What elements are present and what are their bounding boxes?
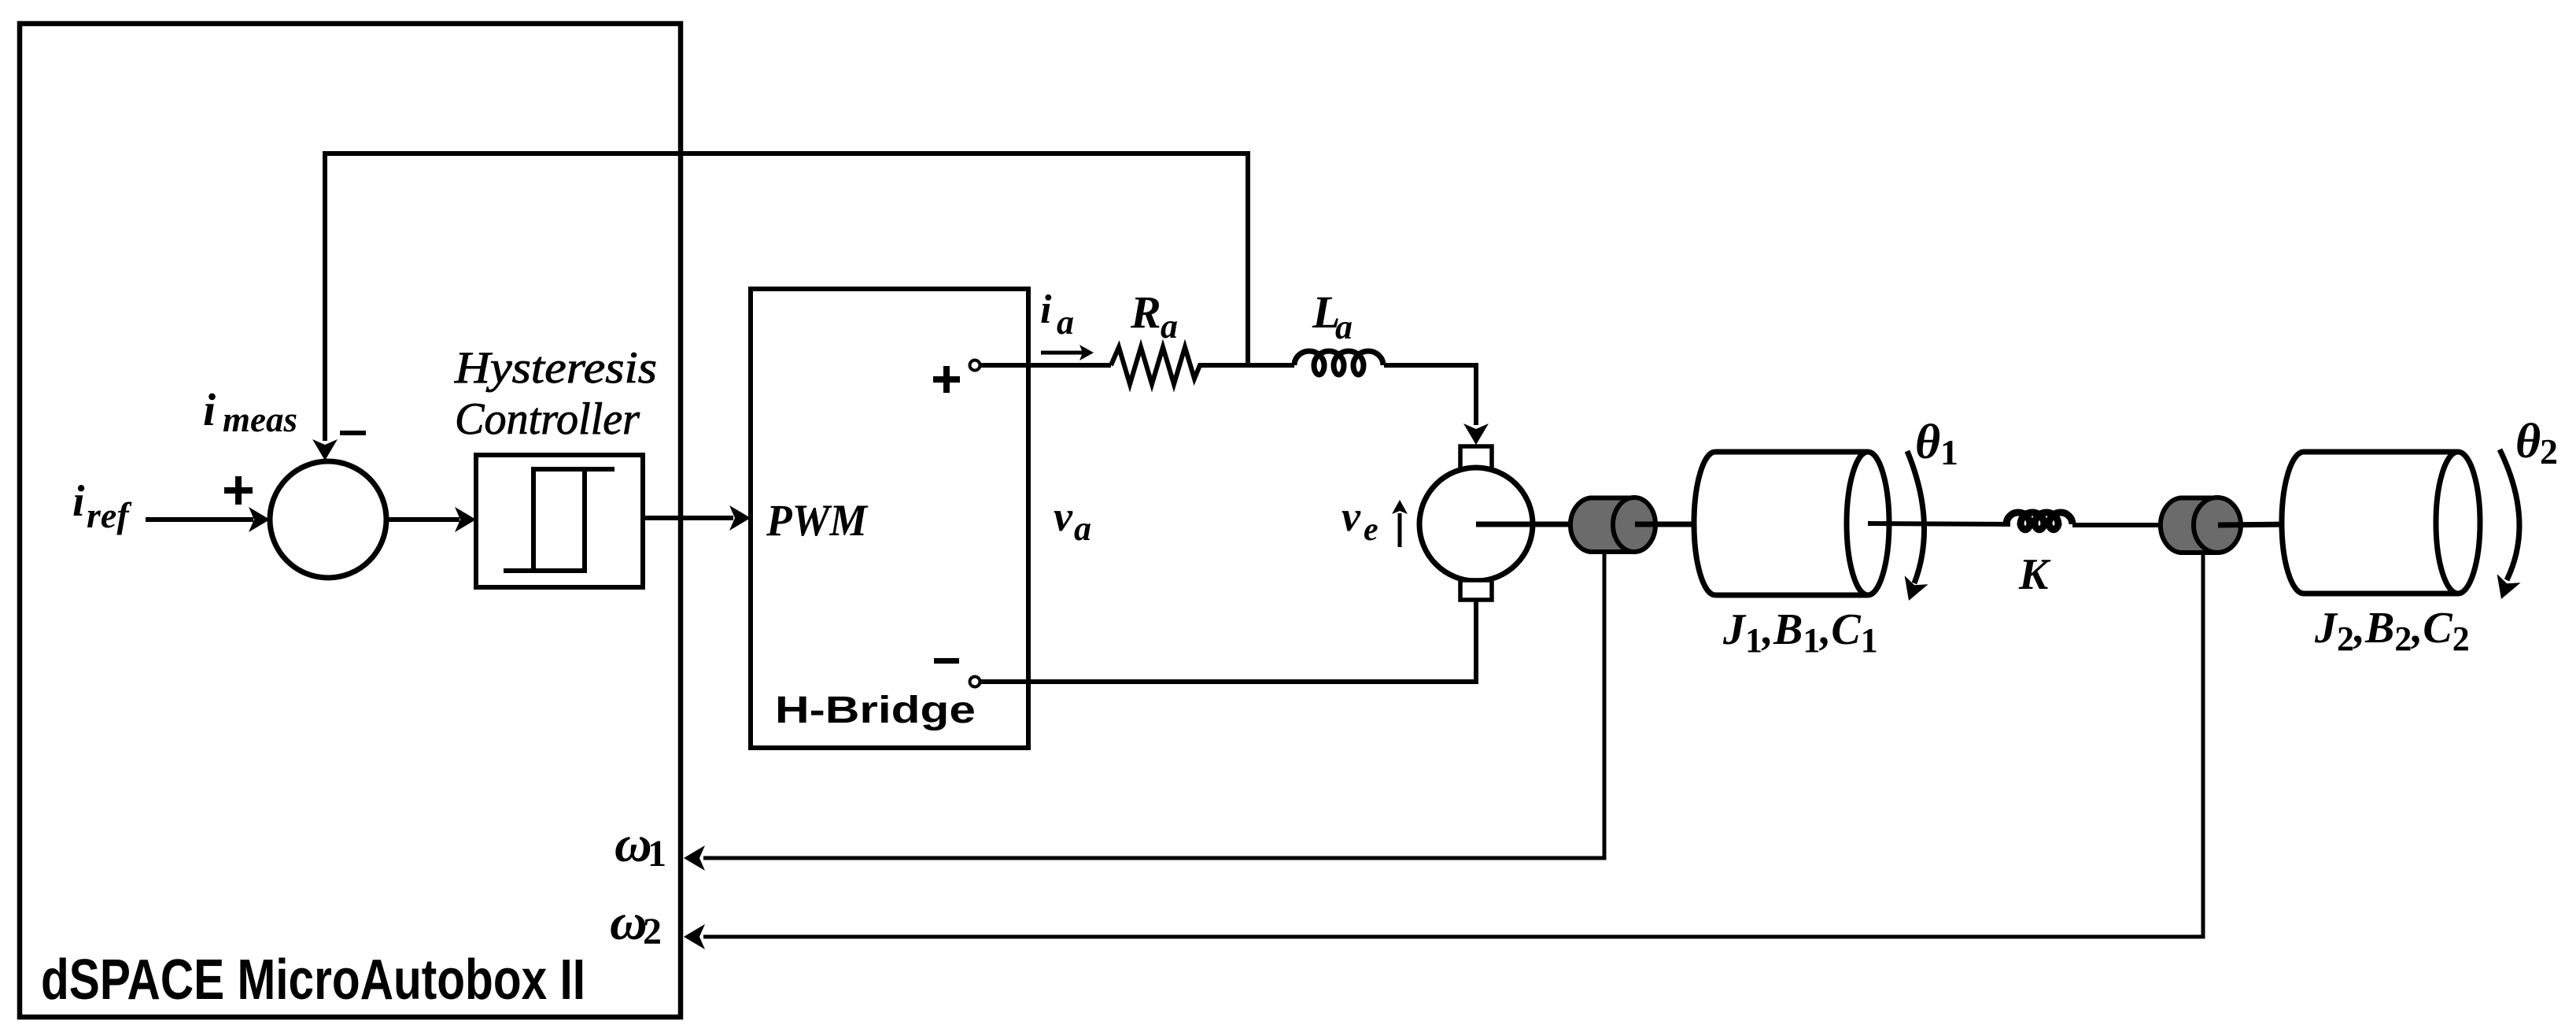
inductor La: [1294, 351, 1383, 375]
label: plus sign at summing junction: [224, 476, 253, 505]
coupling 1 end ellipse: [1613, 498, 1655, 552]
svg-text:Hysteresis: Hysteresis: [454, 343, 657, 393]
wire: positive terminal to resistor: [980, 363, 1111, 368]
svg-text:H-Bridge: H-Bridge: [775, 690, 976, 731]
wire: summing junction to hysteresis controller: [386, 507, 476, 532]
label: minus sign at H-bridge negative terminal: [934, 658, 959, 664]
svg-text:a: a: [1074, 509, 1091, 548]
label: i_a: [1040, 287, 1074, 342]
label: Hysteresis Controller: [454, 343, 657, 444]
svg-text:a: a: [1057, 303, 1074, 342]
wire: coupling 1 speed signal omega1 down and left: [703, 552, 1604, 858]
label: v_e: [1342, 493, 1378, 548]
shaft: motor to coupling 1: [1476, 522, 1572, 527]
svg-text:Controller: Controller: [455, 394, 640, 444]
svg-text:a: a: [1335, 308, 1353, 346]
label: i_ref: [72, 477, 132, 535]
wire: current feedback from Ra-La node to summing junction: [325, 154, 1248, 441]
spring K torsional coupling: [2006, 512, 2072, 530]
arrowhead: feedback into summing junction (down): [312, 439, 338, 461]
arrowhead: omega2 into dSPACE box (left): [684, 924, 705, 949]
arrowhead: omega1 into dSPACE box (left): [684, 845, 705, 871]
arrowhead: into motor top terminal (down): [1463, 424, 1489, 445]
shaft: coupling 2 to inertia J2: [2218, 524, 2291, 525]
arc: theta2 rotation arrow: [2497, 449, 2521, 599]
svg-text:2: 2: [643, 911, 662, 952]
label: plus sign at H-bridge positive terminal: [933, 366, 960, 393]
wire: coupling 2 speed signal omega2 down and left: [703, 553, 2203, 937]
svg-text:1: 1: [648, 833, 666, 875]
svg-text:dSPACE MicroAutobox II: dSPACE MicroAutobox II: [41, 949, 585, 1012]
svg-text:R: R: [1130, 287, 1161, 338]
motor: bottom brush terminal: [1460, 580, 1492, 600]
svg-text:ref: ref: [87, 495, 132, 535]
shaft: J1 to torsion spring: [1868, 523, 2010, 524]
terminal: H-bridge positive output dot: [970, 361, 980, 371]
inertia J1 cylinder: [1694, 452, 1889, 595]
symbol: hysteresis relay curve: [504, 469, 614, 571]
label: i_meas: [203, 384, 297, 439]
wire: inductor to motor top: [1384, 365, 1476, 425]
label: theta2: [2515, 415, 2558, 472]
block: H-Bridge box: [751, 289, 1028, 748]
svg-text:θ: θ: [1915, 416, 1940, 469]
svg-text:i: i: [72, 477, 85, 526]
block: hysteresis controller box: [476, 455, 643, 587]
svg-text:v: v: [1342, 493, 1361, 540]
svg-text:θ: θ: [2515, 415, 2541, 468]
svg-text:ω: ω: [614, 816, 652, 873]
svg-text:ω: ω: [610, 893, 648, 951]
arrow: i_a current direction: [1041, 345, 1094, 361]
inertia J2 cylinder: [2282, 452, 2480, 594]
wire: i_ref input arrow: [146, 507, 270, 532]
svg-text:meas: meas: [223, 400, 297, 439]
node: summing junction circle: [270, 461, 386, 578]
shaft: coupling 1 to inertia J1: [1635, 522, 1699, 527]
svg-text:PWM: PWM: [766, 496, 869, 546]
svg-text:2: 2: [2540, 431, 2558, 472]
wire: hysteresis output to PWM input: [643, 505, 751, 531]
coupling 2 end ellipse: [2194, 498, 2241, 553]
coupling 2 body (speed sensor): [2161, 498, 2217, 553]
terminal: H-bridge negative output dot: [970, 677, 980, 687]
outer box: dSPACE MicroAutobox II enclosure: [20, 24, 681, 1017]
wire: spring to coupling 2: [2072, 523, 2162, 527]
label: minus sign at summing junction: [340, 431, 366, 435]
resistor Ra: [1111, 347, 1203, 384]
svg-text:K: K: [2018, 550, 2051, 599]
motor: DC motor body: [1419, 468, 1533, 581]
wire: resistor to inductor with feedback tap: [1203, 363, 1294, 368]
svg-text:e: e: [1364, 512, 1378, 548]
wire: motor bottom to H-bridge negative terminal: [980, 600, 1476, 682]
arc: theta1 rotation arrow: [1905, 451, 1928, 601]
coupling 1 body (speed sensor): [1570, 498, 1634, 553]
label: theta1: [1915, 416, 1958, 472]
label: omega1: [614, 816, 666, 875]
label: omega2: [610, 893, 662, 952]
arrow: v_e polarity (up): [1392, 500, 1408, 547]
label: L_a: [1312, 287, 1353, 346]
svg-text:v: v: [1054, 493, 1073, 540]
label: R_a: [1130, 287, 1178, 346]
svg-text:a: a: [1161, 307, 1178, 346]
svg-text:i: i: [203, 384, 216, 435]
svg-text:1: 1: [1940, 432, 1958, 472]
label: v_a: [1054, 493, 1091, 548]
svg-text:i: i: [1040, 287, 1052, 332]
motor: top brush terminal: [1460, 446, 1492, 469]
